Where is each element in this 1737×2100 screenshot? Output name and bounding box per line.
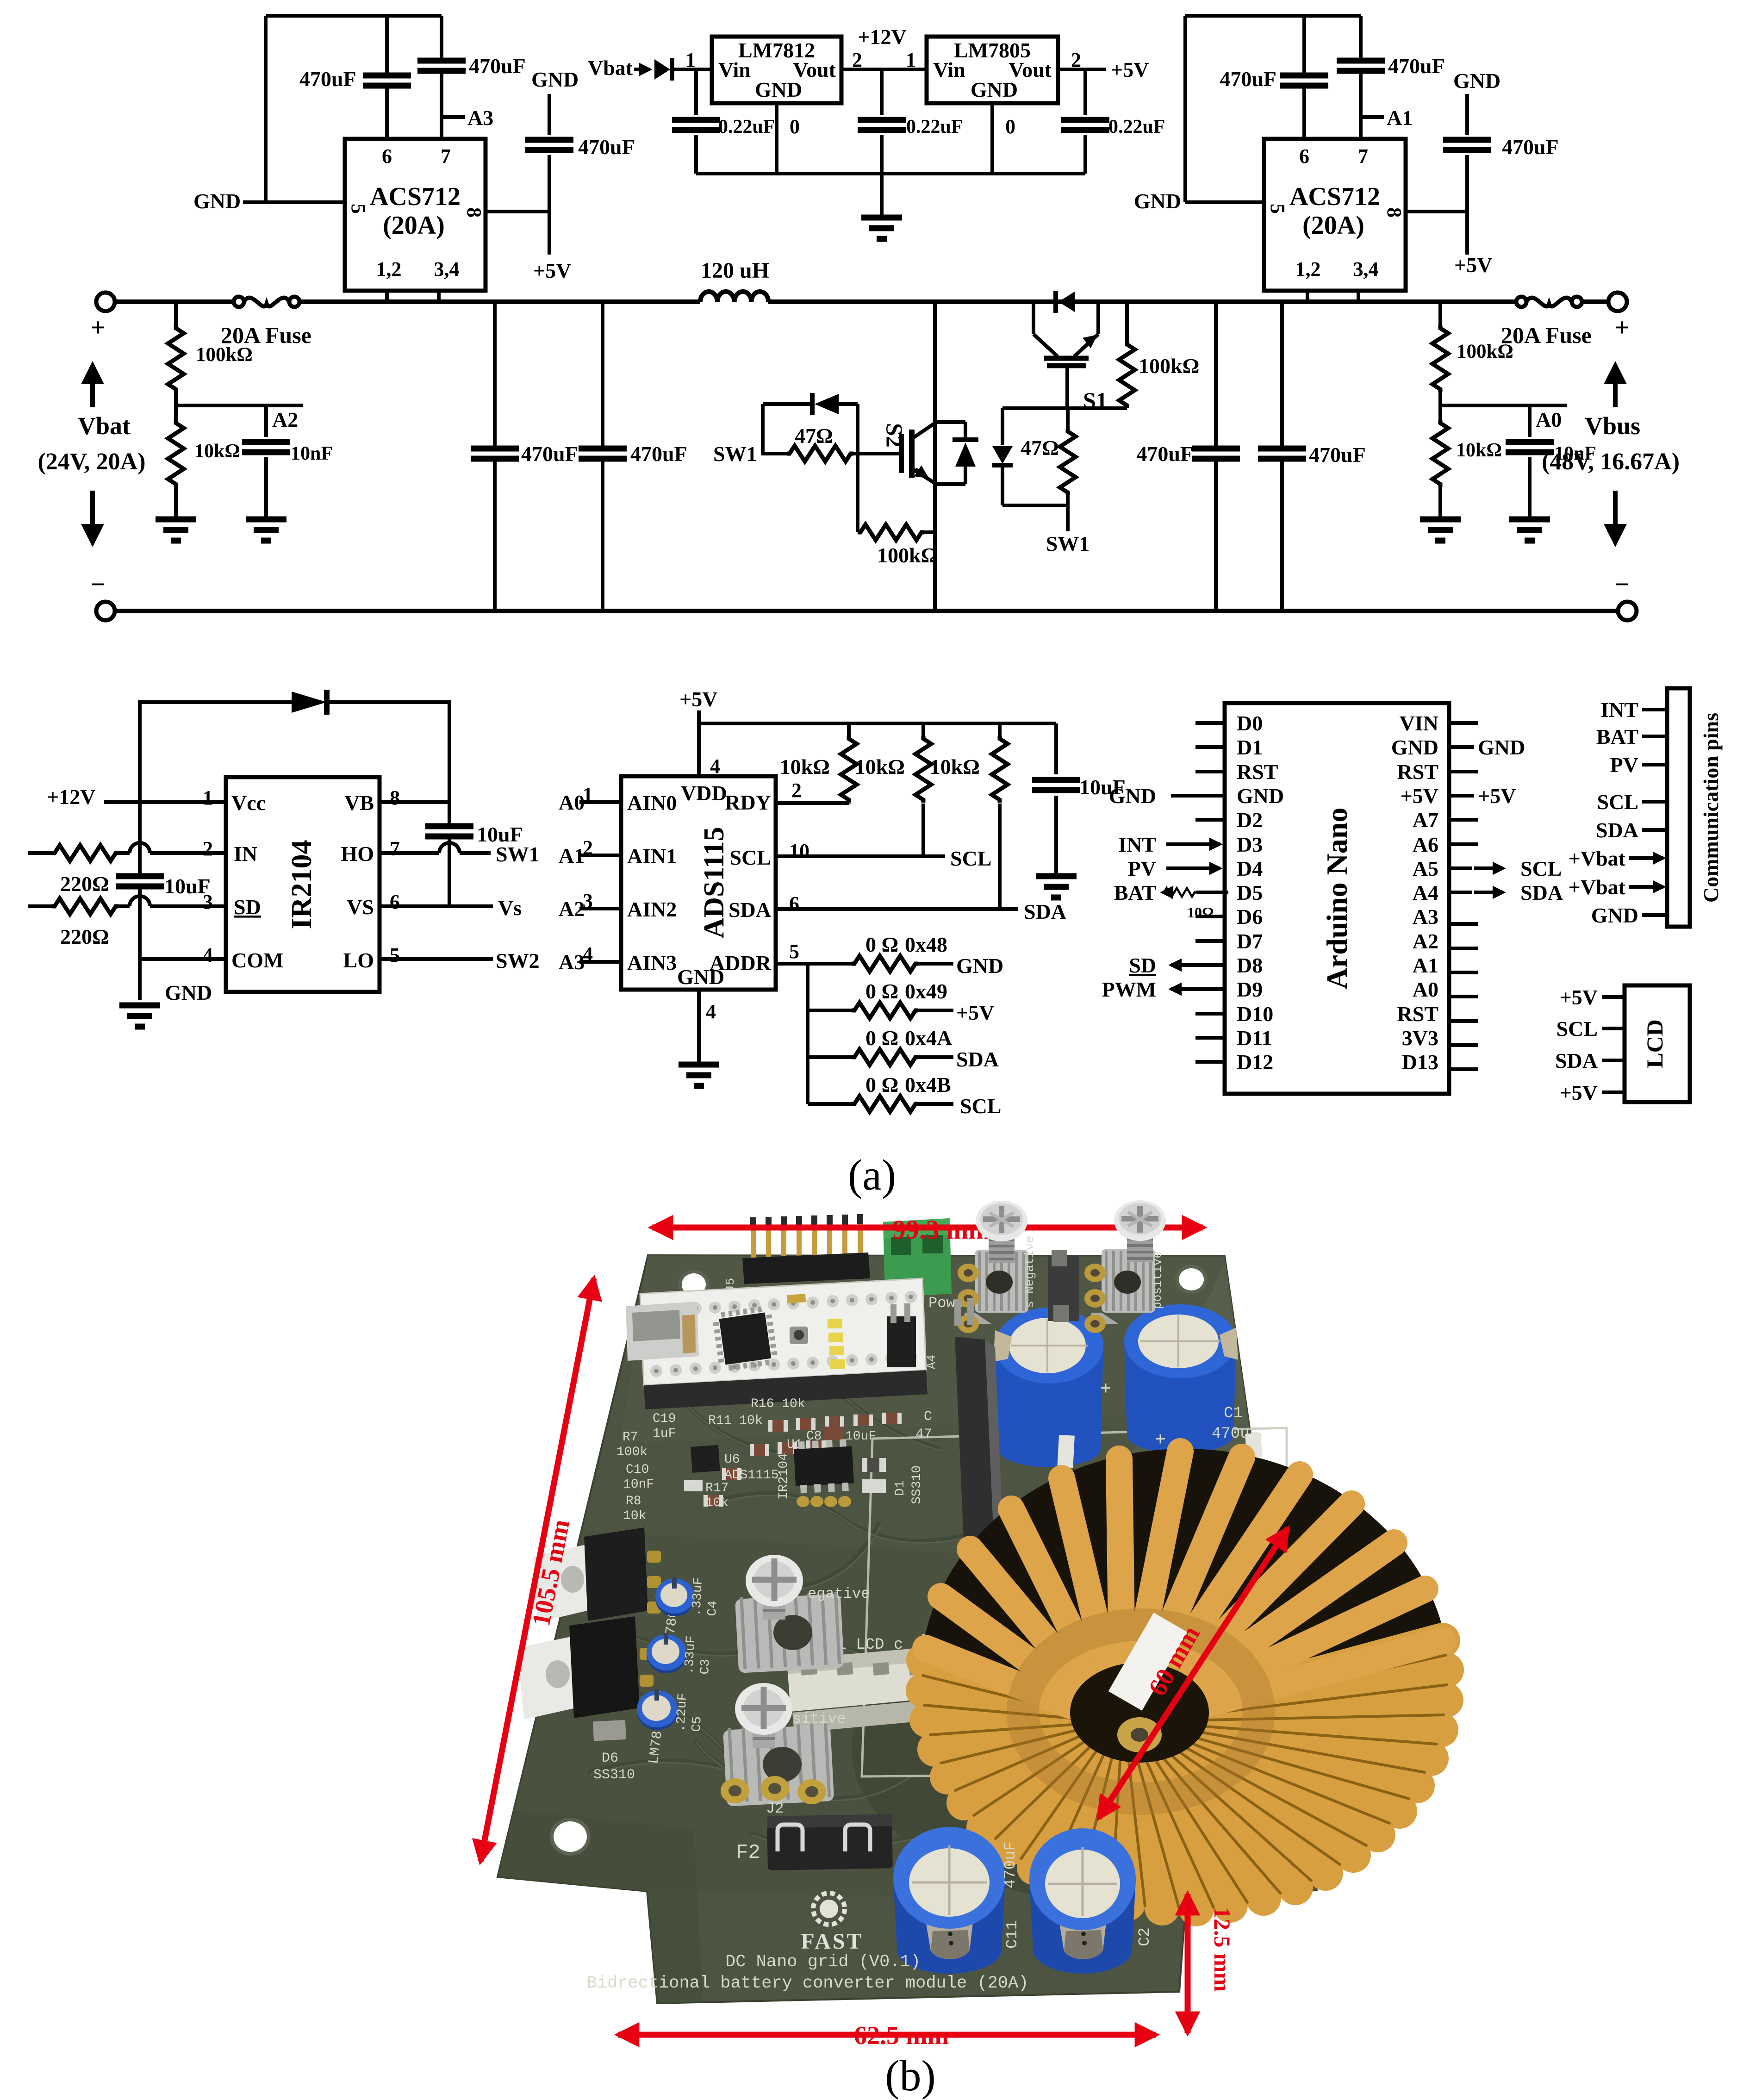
svg-text:SCL: SCL [1556, 1017, 1598, 1041]
svg-text:100kΩ: 100kΩ [1139, 354, 1199, 378]
svg-text:s Negative: s Negative [1023, 1236, 1037, 1308]
svg-text:12.5 mm: 12.5 mm [1209, 1907, 1235, 1992]
svg-text:10: 10 [789, 840, 809, 862]
svg-text:LO: LO [343, 948, 374, 972]
svg-text:INT: INT [1600, 698, 1638, 722]
svg-text:A3: A3 [467, 106, 493, 130]
svg-text:RST: RST [1237, 760, 1278, 784]
svg-text:10kΩ: 10kΩ [194, 441, 240, 462]
svg-text:5: 5 [1266, 204, 1289, 214]
svg-text:A2: A2 [272, 408, 298, 431]
svg-text:10uF: 10uF [164, 874, 211, 898]
svg-text:SCL: SCL [730, 846, 771, 869]
svg-text:IN: IN [234, 842, 257, 866]
svg-text:1: 1 [685, 49, 696, 71]
svg-text:0: 0 [790, 115, 800, 138]
svg-text:470uF: 470uF [630, 442, 687, 466]
svg-text:0 Ω: 0 Ω [865, 1026, 898, 1050]
svg-text:220Ω: 220Ω [60, 925, 109, 948]
svg-text:COM: COM [231, 948, 283, 972]
svg-text:3V3: 3V3 [1402, 1026, 1438, 1050]
svg-text:10k: 10k [623, 1509, 646, 1523]
svg-text:SS310: SS310 [910, 1465, 924, 1504]
svg-text:A3: A3 [1413, 905, 1438, 928]
svg-text:1,2: 1,2 [376, 258, 402, 280]
svg-text:R8: R8 [626, 1494, 641, 1508]
svg-text:(48V, 16.67A): (48V, 16.67A) [1542, 449, 1680, 475]
svg-text:5: 5 [390, 944, 400, 966]
svg-text:.22uF: .22uF [674, 1693, 690, 1732]
svg-text:Vbat: Vbat [78, 412, 131, 440]
svg-text:GND: GND [1237, 784, 1284, 808]
svg-text:+5V: +5V [679, 687, 717, 711]
svg-text:SW1: SW1 [713, 442, 757, 466]
svg-text:C: C [924, 1409, 932, 1425]
svg-text:VS: VS [347, 895, 374, 919]
svg-text:(b): (b) [885, 2052, 936, 2100]
svg-text:470uF: 470uF [1309, 443, 1366, 467]
svg-text:+12V: +12V [47, 785, 95, 809]
svg-text:+12V: +12V [858, 25, 906, 49]
svg-text:D4: D4 [1237, 857, 1263, 880]
svg-text:0x4A: 0x4A [905, 1026, 952, 1050]
svg-text:S2: S2 [882, 423, 908, 448]
svg-text:sitive: sitive [792, 1710, 846, 1727]
svg-text:PWM: PWM [1102, 978, 1156, 1001]
svg-text:SCL: SCL [960, 1094, 1001, 1118]
svg-text:(20A): (20A) [1302, 211, 1364, 240]
svg-text:−: − [1615, 570, 1630, 599]
svg-text:SW1: SW1 [496, 842, 540, 866]
svg-text:GND: GND [1591, 904, 1638, 927]
svg-text:10nF: 10nF [623, 1477, 654, 1492]
svg-text:1: 1 [906, 49, 916, 71]
svg-text:C4: C4 [705, 1600, 721, 1616]
svg-text:0 Ω: 0 Ω [865, 933, 898, 956]
svg-text:+5V: +5V [956, 1001, 994, 1024]
svg-text:C3: C3 [698, 1658, 713, 1675]
svg-text:SW1: SW1 [1046, 532, 1090, 555]
svg-text:RDY: RDY [725, 791, 771, 814]
svg-text:Arduino Nano: Arduino Nano [1320, 808, 1353, 990]
svg-text:SS310: SS310 [593, 1767, 635, 1783]
svg-text:4: 4 [706, 1000, 716, 1023]
svg-text:470uF: 470uF [1220, 67, 1276, 91]
svg-text:FAST: FAST [801, 1929, 863, 1954]
svg-text:C1: C1 [1224, 1405, 1243, 1422]
svg-text:+: + [1100, 1379, 1111, 1400]
svg-text:7: 7 [441, 145, 451, 168]
svg-text:PV: PV [1128, 857, 1156, 880]
svg-text:GND: GND [677, 965, 724, 989]
svg-text:4: 4 [710, 755, 720, 778]
svg-text:A1: A1 [559, 844, 585, 867]
svg-text:Vin: Vin [933, 58, 965, 81]
svg-text:D11: D11 [1237, 1026, 1272, 1050]
svg-text:7: 7 [390, 837, 400, 860]
svg-text:100kΩ: 100kΩ [196, 344, 253, 366]
svg-text:A4: A4 [925, 1355, 939, 1369]
svg-text:470uF: 470uF [469, 54, 526, 78]
svg-text:VB: VB [344, 791, 374, 815]
svg-text:INT: INT [1118, 833, 1156, 856]
svg-text:positive: positive [1151, 1251, 1164, 1309]
svg-text:D7: D7 [1237, 929, 1263, 953]
svg-text:F2: F2 [736, 1841, 760, 1864]
svg-text:20A Fuse: 20A Fuse [1501, 322, 1592, 348]
svg-text:D6: D6 [602, 1751, 618, 1766]
svg-text:SDA: SDA [728, 898, 771, 922]
svg-text:SDA: SDA [1596, 818, 1638, 842]
svg-text:+: + [91, 313, 106, 342]
svg-text:.33uF: .33uF [690, 1577, 706, 1617]
svg-text:120 uH: 120 uH [701, 258, 769, 283]
svg-text:C10: C10 [626, 1463, 649, 1477]
svg-text:470uF: 470uF [521, 442, 578, 466]
svg-text:D0: D0 [1237, 711, 1263, 735]
svg-text:GND: GND [531, 68, 579, 91]
svg-text:D6: D6 [1237, 905, 1263, 928]
svg-text:GND: GND [165, 981, 212, 1004]
svg-text:10kΩ: 10kΩ [1456, 440, 1502, 461]
svg-text:GND: GND [956, 954, 1003, 978]
svg-text:D2: D2 [1237, 808, 1263, 832]
svg-text:VIN: VIN [1400, 711, 1438, 735]
svg-text:A0: A0 [1413, 978, 1438, 1001]
svg-text:0: 0 [1005, 115, 1015, 138]
svg-text:SD: SD [1129, 953, 1156, 977]
svg-text:Vbus: Vbus [1585, 412, 1640, 440]
svg-text:C2: C2 [1136, 1927, 1154, 1946]
svg-text:1,2: 1,2 [1295, 258, 1321, 280]
svg-text:Communication pins: Communication pins [1699, 713, 1723, 903]
svg-text:SW2: SW2 [496, 949, 540, 972]
svg-text:SD: SD [234, 895, 261, 919]
svg-text:J2: J2 [766, 1800, 784, 1817]
svg-text:A2: A2 [559, 897, 585, 921]
svg-text:+Vbat: +Vbat [1569, 875, 1626, 899]
svg-text:AIN2: AIN2 [627, 897, 677, 921]
svg-text:+5V: +5V [1401, 784, 1438, 808]
svg-text:D1: D1 [1237, 735, 1263, 759]
svg-text:100kΩ: 100kΩ [877, 543, 938, 567]
svg-text:R7: R7 [623, 1430, 638, 1445]
svg-text:470uF: 470uF [1136, 442, 1193, 466]
svg-text:AIN0: AIN0 [627, 791, 677, 815]
svg-text:RST: RST [1397, 760, 1438, 784]
svg-text:SDA: SDA [1555, 1049, 1598, 1072]
svg-text:3,4: 3,4 [1353, 258, 1379, 280]
svg-text:A6: A6 [1413, 833, 1438, 856]
svg-text:+5V: +5V [1560, 985, 1598, 1009]
svg-text:GND: GND [193, 189, 241, 213]
svg-text:D10: D10 [1237, 1002, 1273, 1026]
svg-text:(a): (a) [848, 1151, 896, 1199]
svg-text:SCL: SCL [950, 847, 991, 870]
svg-text:6: 6 [1299, 145, 1309, 168]
svg-text:2: 2 [852, 49, 862, 71]
svg-text:47Ω: 47Ω [795, 424, 833, 448]
svg-text:D5: D5 [1237, 881, 1263, 904]
svg-text:0.22uF: 0.22uF [718, 116, 775, 137]
svg-text:10kΩ: 10kΩ [780, 755, 830, 779]
svg-text:470uF: 470uF [1002, 1841, 1020, 1888]
svg-text:8: 8 [390, 786, 400, 809]
svg-text:10k: 10k [705, 1496, 728, 1510]
svg-text:+Vbat: +Vbat [1569, 847, 1626, 870]
svg-text:R17: R17 [705, 1481, 728, 1496]
svg-text:6: 6 [390, 891, 400, 913]
svg-text:Vbat: Vbat [588, 56, 633, 80]
svg-text:A0: A0 [1536, 408, 1562, 431]
svg-text:.33uF: .33uF [682, 1635, 698, 1675]
svg-text:Bidrectional battery converter: Bidrectional battery converter module (2… [587, 1974, 1029, 1993]
svg-text:100kΩ: 100kΩ [1457, 341, 1513, 362]
svg-text:IR2104: IR2104 [286, 840, 318, 929]
svg-text:A2: A2 [1413, 929, 1438, 953]
svg-text:C5: C5 [690, 1716, 705, 1732]
svg-text:10nF: 10nF [291, 443, 333, 464]
svg-text:D8: D8 [1237, 953, 1263, 977]
svg-text:D9: D9 [1237, 978, 1263, 1001]
svg-text:A5: A5 [1413, 857, 1438, 880]
svg-text:GND: GND [1453, 69, 1500, 93]
svg-text:+5V: +5V [1111, 58, 1149, 81]
svg-text:8: 8 [463, 207, 486, 218]
svg-text:2: 2 [1071, 49, 1081, 71]
svg-text:10uF: 10uF [845, 1429, 876, 1444]
svg-text:0x48: 0x48 [905, 933, 947, 956]
svg-text:1uF: 1uF [653, 1427, 676, 1441]
svg-text:A0: A0 [559, 791, 585, 814]
svg-text:ACS712: ACS712 [370, 182, 461, 211]
svg-text:GND: GND [971, 78, 1018, 101]
svg-text:Vcc: Vcc [231, 791, 266, 815]
svg-text:7: 7 [1358, 145, 1368, 168]
svg-text:10kΩ: 10kΩ [930, 755, 980, 779]
svg-text:A3: A3 [559, 950, 585, 974]
svg-text:HO: HO [341, 842, 374, 866]
svg-text:R16 10k: R16 10k [751, 1397, 805, 1411]
svg-text:5: 5 [347, 204, 370, 214]
svg-text:−: − [91, 570, 106, 599]
svg-text:8: 8 [1383, 207, 1406, 218]
svg-text:6: 6 [789, 892, 799, 915]
svg-text:4: 4 [203, 944, 213, 966]
svg-text:BAT: BAT [1596, 725, 1638, 748]
svg-text:SCL: SCL [1520, 857, 1562, 880]
svg-text:+5V: +5V [533, 259, 571, 282]
svg-text:10kΩ: 10kΩ [855, 755, 905, 779]
svg-text:ADS1115: ADS1115 [698, 827, 730, 938]
svg-text:AIN1: AIN1 [627, 844, 677, 868]
svg-text:47Ω: 47Ω [1021, 436, 1059, 460]
svg-text:GND: GND [1478, 735, 1525, 759]
svg-text:5: 5 [789, 940, 799, 963]
svg-text:GND: GND [755, 78, 802, 101]
svg-text:470uF: 470uF [1388, 54, 1445, 78]
svg-text:A1: A1 [1413, 953, 1438, 977]
svg-text:A7: A7 [1413, 808, 1438, 832]
svg-text:2: 2 [203, 837, 213, 860]
svg-text:SCL: SCL [1597, 790, 1638, 814]
svg-text:D1: D1 [893, 1480, 908, 1496]
svg-text:VDD: VDD [681, 781, 727, 805]
svg-text:egative: egative [808, 1585, 870, 1602]
svg-text:+: + [1615, 313, 1630, 342]
svg-text:(24V, 20A): (24V, 20A) [37, 449, 145, 475]
svg-text:A4: A4 [1413, 881, 1438, 904]
svg-text:3,4: 3,4 [434, 258, 460, 280]
svg-text:100k: 100k [616, 1445, 647, 1459]
svg-text:470uF: 470uF [299, 67, 356, 91]
svg-text:1: 1 [203, 786, 213, 809]
svg-text:AIN3: AIN3 [627, 951, 677, 974]
svg-text:RST: RST [1397, 1002, 1438, 1026]
svg-text:ADS1115: ADS1115 [724, 1468, 779, 1483]
svg-text:+: + [1155, 1430, 1166, 1451]
svg-text:0.22uF: 0.22uF [1108, 116, 1165, 137]
svg-text:62.5 mm: 62.5 mm [854, 2021, 949, 2050]
svg-text:47: 47 [915, 1427, 932, 1442]
svg-text:10Ω: 10Ω [1187, 904, 1214, 921]
svg-text:C19: C19 [653, 1412, 676, 1426]
svg-text:IR2104: IR2104 [777, 1453, 791, 1500]
svg-text:Vin: Vin [718, 58, 751, 81]
svg-text:BAT: BAT [1114, 881, 1156, 904]
svg-text:D3: D3 [1237, 833, 1263, 856]
svg-text:0x4B: 0x4B [905, 1073, 951, 1097]
svg-text:A1: A1 [1387, 106, 1413, 130]
svg-text:Vs: Vs [498, 896, 522, 920]
svg-text:470uF: 470uF [578, 135, 635, 159]
svg-text:0 Ω: 0 Ω [865, 979, 898, 1003]
svg-text:D13: D13 [1402, 1050, 1438, 1074]
svg-text:470uF: 470uF [1502, 135, 1559, 159]
svg-text:ACS712: ACS712 [1289, 182, 1380, 211]
svg-text:SDA: SDA [1520, 881, 1563, 904]
svg-text:PV: PV [1610, 753, 1638, 777]
svg-text:GND: GND [1391, 735, 1438, 759]
svg-text:0x49: 0x49 [905, 979, 947, 1003]
svg-text:DC Nano grid (V0.1): DC Nano grid (V0.1) [725, 1952, 921, 1972]
svg-text:LCD: LCD [1642, 1019, 1668, 1068]
svg-text:+5V: +5V [1454, 253, 1492, 277]
svg-text:C11: C11 [1004, 1920, 1021, 1949]
svg-text:SDA: SDA [1024, 900, 1066, 923]
svg-text:GND: GND [1109, 784, 1156, 808]
svg-text:D12: D12 [1237, 1050, 1273, 1074]
svg-text:U6: U6 [724, 1452, 740, 1467]
svg-text:R11 10k: R11 10k [708, 1414, 763, 1428]
svg-text:0.22uF: 0.22uF [906, 116, 963, 137]
svg-text:220Ω: 220Ω [60, 872, 109, 896]
svg-text:2: 2 [791, 779, 802, 802]
svg-text:+5V: +5V [1478, 784, 1516, 808]
svg-text:SDA: SDA [956, 1047, 999, 1071]
svg-text:0 Ω: 0 Ω [865, 1073, 898, 1097]
svg-text:GND: GND [1134, 189, 1181, 213]
svg-text:+5V: +5V [1560, 1081, 1598, 1104]
svg-text:6: 6 [382, 145, 392, 168]
svg-text:(20A): (20A) [383, 211, 445, 240]
